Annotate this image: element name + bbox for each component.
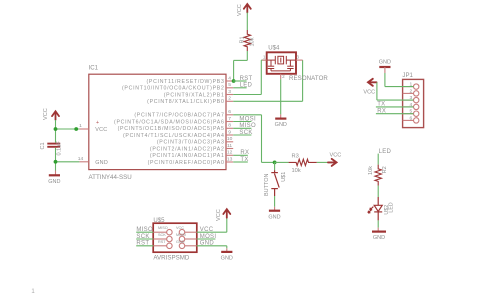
resistor R1 <box>244 30 250 51</box>
svg-text:(PCINT5/OC1B/MISO/DO/ADC5)PA5: (PCINT5/OC1B/MISO/DO/ADC5)PA5 <box>118 126 225 132</box>
svg-text:GND: GND <box>379 59 391 65</box>
ground symbol (below LED) <box>372 232 386 242</box>
wire LED cathode to GND <box>377 220 379 227</box>
svg-text:MISO: MISO <box>158 226 168 230</box>
svg-text:ATTINY44-SSU: ATTINY44-SSU <box>89 174 132 181</box>
svg-text:VCC: VCC <box>363 90 375 96</box>
svg-text:7: 7 <box>228 116 231 122</box>
wire net TX at IC1 pin 13 <box>233 161 248 163</box>
wire VCC net to IC1 pin 1 <box>56 128 80 130</box>
U$5 pad MOSI <box>179 236 185 242</box>
svg-text:GND: GND <box>200 241 215 247</box>
wire XTAL1 net from pin 2 <box>233 100 302 102</box>
svg-text:RESONATOR: RESONATOR <box>289 75 328 82</box>
U$5 pad VCC <box>179 229 185 235</box>
svg-text:R2: R2 <box>382 166 388 173</box>
IC1 pin 6 stub <box>226 114 233 116</box>
resonator U$4 body <box>267 52 296 74</box>
svg-text:GND: GND <box>268 214 280 220</box>
svg-text:3: 3 <box>228 89 231 95</box>
svg-text:VCC: VCC <box>95 127 107 133</box>
wire VCC to JP1 pin 3 <box>377 99 414 101</box>
svg-text:JP1: JP1 <box>402 72 413 79</box>
svg-text:8: 8 <box>228 123 231 129</box>
LED GND stub <box>377 228 379 232</box>
power VCC symbol (left of IC1) <box>52 111 59 120</box>
resonator pin 3 stub <box>296 59 303 61</box>
svg-text:LED: LED <box>240 83 253 89</box>
svg-text:SCK: SCK <box>239 130 252 136</box>
svg-text:RST: RST <box>158 240 166 244</box>
svg-text:AVRISPSMD: AVRISPSMD <box>153 254 190 261</box>
svg-text:MOSI: MOSI <box>239 116 256 122</box>
junction node VCC at C1 <box>54 127 58 131</box>
JP1 pin 5 stub <box>403 113 414 115</box>
svg-text:(PCINT11/RESET/DW)PB3: (PCINT11/RESET/DW)PB3 <box>146 79 224 85</box>
svg-text:10: 10 <box>227 136 233 142</box>
IC1 pin 12 stub <box>226 154 233 156</box>
U$5 GND stub <box>226 248 228 251</box>
JP1 pin 6 pad <box>414 118 419 123</box>
svg-text:(PCINT6/OC1A/SDA/MOSI/ADC6)PA6: (PCINT6/OC1A/SDA/MOSI/ADC6)PA6 <box>114 119 225 125</box>
IC IC1 ATTINY44-SSU body <box>89 74 226 169</box>
svg-text:GND: GND <box>176 240 185 244</box>
wire PA7 net from IC1 pin 6 <box>233 114 261 116</box>
wire net MISO to U$5 <box>136 231 153 233</box>
U$5 pad GND <box>179 243 185 249</box>
resonator U$4 internal crystal and caps <box>268 56 296 71</box>
IC1 pin 11 stub <box>226 148 233 150</box>
resistor R2 <box>375 165 381 186</box>
IC1 pin 5 stub <box>226 87 233 89</box>
svg-text:2: 2 <box>228 96 231 102</box>
svg-text:VCC: VCC <box>330 152 342 158</box>
svg-text:14: 14 <box>78 156 84 162</box>
svg-text:(PCINT9/XTAL2)PB1: (PCINT9/XTAL2)PB1 <box>164 92 225 98</box>
svg-text:VCC: VCC <box>216 209 222 221</box>
wire U$5 GND right <box>197 245 227 247</box>
power VCC symbol (above R1) <box>244 4 251 13</box>
wire net RX at IC1 pin 12 <box>233 154 248 156</box>
wire R1 to RST column <box>234 59 248 61</box>
svg-text:TX: TX <box>240 157 248 163</box>
JP1 pin 4 pad <box>414 104 419 109</box>
svg-text:2: 2 <box>410 88 413 94</box>
IC1 pin 2 stub <box>226 100 233 102</box>
IC1 pin 14 GND stub <box>79 161 88 163</box>
JP1 pin 4 stub <box>403 106 414 108</box>
svg-text:(PCINT0/AREF/ADC0)PA0: (PCINT0/AREF/ADC0)PA0 <box>148 160 225 166</box>
IC1 pin 10 stub <box>226 141 233 143</box>
power VCC symbol (left of JP1) <box>368 79 377 86</box>
svg-text:LED: LED <box>389 202 395 213</box>
svg-text:+: + <box>96 120 99 126</box>
power VCC symbol (above U$5) <box>223 209 230 218</box>
svg-text:10k: 10k <box>368 166 374 175</box>
wire GND to JP1 pin 1 <box>385 86 414 88</box>
JP1 pin 5 pad <box>414 111 419 116</box>
svg-text:12: 12 <box>227 150 233 156</box>
wire junction down to button <box>274 162 276 170</box>
ground symbol (below U$5) <box>221 252 233 262</box>
wire C1 GND stub <box>55 171 57 176</box>
resonator pin 2 stub <box>280 74 282 79</box>
IC1 pin 1 VCC stub <box>79 128 88 130</box>
header JP1 body <box>403 79 424 127</box>
svg-text:(PCINT3/T0/ADC3)PA3: (PCINT3/T0/ADC3)PA3 <box>157 140 225 146</box>
wire net SCK to U$5 <box>136 238 153 240</box>
JP1 pin 3 pad <box>414 97 419 102</box>
svg-text:SCK: SCK <box>158 233 166 237</box>
svg-text:3: 3 <box>296 55 299 60</box>
svg-text:RX: RX <box>240 150 249 156</box>
wire U$5 VCC up <box>226 218 228 233</box>
IC1 pin 7 stub <box>226 121 233 123</box>
svg-text:TX: TX <box>377 102 385 108</box>
U$5 right pin GND stub <box>185 245 197 247</box>
svg-text:(PCINT4/T1/SCL/USCK/ADC4)PA4: (PCINT4/T1/SCL/USCK/ADC4)PA4 <box>123 133 225 139</box>
junction node RST <box>232 79 236 83</box>
wire C1 bottom to GND <box>55 148 57 171</box>
U$5 left pin RST stub <box>153 245 167 247</box>
ground symbol (above JP1) <box>379 59 391 67</box>
JP1 pin 1 pad <box>414 84 419 89</box>
IC1 pin 13 stub <box>226 161 233 163</box>
svg-text:5: 5 <box>228 82 231 88</box>
svg-text:GND: GND <box>48 179 60 185</box>
wire net MOSI from U$5 <box>197 238 216 240</box>
svg-text:1: 1 <box>263 55 266 60</box>
svg-text:U$4: U$4 <box>268 45 280 52</box>
JP1 pin 3 stub <box>403 99 414 101</box>
wire VCC to R1 top <box>246 13 248 31</box>
wire net MISO at IC1 pin 8 <box>233 127 251 129</box>
U$5 right pin VCC stub <box>185 231 197 233</box>
wire button to GND <box>274 196 276 207</box>
ground symbol (below resonator) <box>275 119 287 129</box>
svg-text:10k: 10k <box>249 37 255 46</box>
svg-text:6: 6 <box>228 109 231 115</box>
button GND stub <box>274 207 276 211</box>
svg-text:VCC: VCC <box>176 226 184 230</box>
svg-text:GND: GND <box>373 235 385 241</box>
svg-text:2: 2 <box>282 74 285 79</box>
U$5 right pin MOSI stub <box>185 238 197 240</box>
IC1 pin 3 stub <box>226 94 233 96</box>
wire PA7 to button junction <box>262 161 275 163</box>
wire VCC to C1 top <box>55 120 57 143</box>
wire junction to R3 <box>275 161 289 163</box>
svg-text:RX: RX <box>377 109 386 115</box>
svg-text:11: 11 <box>227 143 232 149</box>
junction node button <box>273 161 277 165</box>
IC1 pin 8 stub <box>226 127 233 129</box>
svg-text:GND: GND <box>95 160 108 166</box>
JP1 pin 1 stub <box>403 86 414 88</box>
ground symbol (below button) <box>268 211 280 221</box>
svg-text:U$5: U$5 <box>153 217 165 224</box>
wire net RX to JP1 pin 5 <box>376 113 414 115</box>
power VCC symbol (right of R3) <box>328 159 337 166</box>
junction node GND at C1 <box>54 160 58 164</box>
U$5 pad MISO <box>167 229 173 235</box>
capacitor C1 <box>47 144 60 147</box>
LED U$2 symbol <box>368 197 382 220</box>
button U$1 switch symbol <box>271 170 279 196</box>
svg-text:(PCINT2/AIN1/ADC2)PA2: (PCINT2/AIN1/ADC2)PA2 <box>150 146 225 152</box>
svg-text:0.1uF: 0.1uF <box>57 141 63 156</box>
svg-text:R1: R1 <box>240 36 246 43</box>
svg-text:1: 1 <box>79 123 82 129</box>
wire R3 to VCC <box>317 161 329 163</box>
wire VCC down <box>376 82 378 100</box>
JP1 pin 2 stub <box>403 92 414 94</box>
resonator pin 1 stub <box>262 59 267 61</box>
wire net SCK at IC1 pin 9 <box>233 134 251 136</box>
resistor R3 <box>289 159 317 165</box>
svg-text:RST: RST <box>136 241 149 247</box>
svg-text:9: 9 <box>228 129 231 135</box>
U$5 pad SCK <box>167 236 173 242</box>
JP1 pin 6 stub <box>403 119 414 121</box>
resonator GND stub <box>280 114 282 118</box>
svg-text:1: 1 <box>31 289 35 293</box>
U$5 left pin SCK stub <box>153 238 167 240</box>
IC1 pin 9 stub <box>226 134 233 136</box>
wire net MOSI at IC1 pin 7 <box>233 121 251 123</box>
svg-text:C1: C1 <box>40 142 46 149</box>
svg-text:6: 6 <box>410 115 413 121</box>
svg-text:RST: RST <box>240 76 253 82</box>
svg-text:VCC: VCC <box>200 227 214 233</box>
svg-text:IC1: IC1 <box>89 65 99 72</box>
svg-text:(PCINT10/INT0/OC0A/CKOUT)PB2: (PCINT10/INT0/OC0A/CKOUT)PB2 <box>122 86 225 92</box>
svg-text:10k: 10k <box>292 168 301 174</box>
wire into resonator pin 1 <box>261 59 266 61</box>
JP1 pin 2 pad <box>414 91 419 96</box>
wire R1 bottom down <box>246 51 248 60</box>
wire XTAL2 vertical up to resonator pin 1 <box>260 60 262 94</box>
svg-text:(PCINT7/ICP/OC0B/ADC7)PA7: (PCINT7/ICP/OC0B/ADC7)PA7 <box>134 113 224 119</box>
IC1 pin 4 stub <box>226 80 233 82</box>
wire LED net down to R2 <box>377 154 379 165</box>
wire R2 to LED anode <box>377 186 379 197</box>
svg-text:(PCINT1/AIN0/ADC1)PA1: (PCINT1/AIN0/ADC1)PA1 <box>150 153 225 159</box>
U$5 left pin MISO stub <box>153 231 167 233</box>
wire net RST to U$5 <box>136 245 153 247</box>
svg-text:VCC: VCC <box>43 108 49 120</box>
svg-text:U$1: U$1 <box>281 172 287 182</box>
wire U$5 VCC right <box>197 231 227 233</box>
svg-text:BUTTON: BUTTON <box>264 173 270 196</box>
header U$5 AVRISPSMD body <box>153 223 197 252</box>
U$5 pad RST <box>167 243 173 249</box>
svg-text:VCC: VCC <box>237 4 243 16</box>
wire U$5 GND down <box>226 246 228 249</box>
svg-text:LED: LED <box>379 149 392 155</box>
wire PA7 vertical down <box>261 115 263 163</box>
wire net LED at IC1 pin 5 <box>233 87 246 89</box>
wire net RST at IC1 pin 4 <box>233 80 246 82</box>
junction at IC1 pin 1 <box>74 127 78 131</box>
wire XTAL1 vertical up to resonator pin 3 <box>302 60 304 101</box>
svg-text:MISO: MISO <box>136 227 153 233</box>
svg-text:4: 4 <box>228 75 231 81</box>
svg-text:(PCINT8/XTAL1/CLKI)PB0: (PCINT8/XTAL1/CLKI)PB0 <box>147 99 224 105</box>
wire RST column down to pin 4 net <box>233 60 235 81</box>
svg-text:SCK: SCK <box>136 234 149 240</box>
wire GND down to JP1 <box>384 73 386 87</box>
wire GND net to IC1 pin 14 <box>56 161 80 163</box>
svg-text:GND: GND <box>221 256 233 262</box>
wire resonator pin 2 to GND <box>280 79 282 114</box>
wire net TX to JP1 pin 4 <box>376 106 414 108</box>
svg-text:13: 13 <box>227 156 233 162</box>
svg-text:R3: R3 <box>292 154 299 160</box>
JP1 GND stub <box>384 67 386 73</box>
ground symbol (below C1) <box>48 175 60 185</box>
svg-text:MISO: MISO <box>239 123 256 129</box>
wire XTAL2 net from pin 3 <box>233 94 261 96</box>
svg-text:MOSI: MOSI <box>200 234 217 240</box>
svg-text:GND: GND <box>275 122 287 128</box>
svg-text:MOSI: MOSI <box>176 233 186 237</box>
